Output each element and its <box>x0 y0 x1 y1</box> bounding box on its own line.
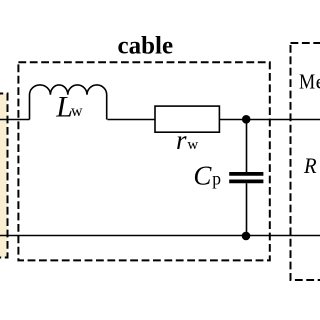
svg-text:edium: edium <box>316 69 320 93</box>
svg-text:M: M <box>299 69 315 93</box>
svg-text:cable: cable <box>118 32 174 59</box>
svg-text:p: p <box>212 168 221 188</box>
svg-text:R: R <box>303 153 317 178</box>
svg-text:C: C <box>193 160 212 190</box>
svg-text:w: w <box>187 137 198 153</box>
svg-text:r: r <box>176 125 187 155</box>
svg-text:w: w <box>71 103 83 120</box>
